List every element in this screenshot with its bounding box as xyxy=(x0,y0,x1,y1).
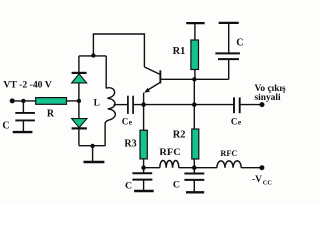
capacitor C (bottom right) xyxy=(184,168,204,192)
wire RFC to R2 node xyxy=(179,167,217,169)
wire C bottom to base node xyxy=(194,78,228,80)
wire R to varactor node xyxy=(67,100,79,102)
node C tap junction xyxy=(21,99,25,103)
wire emitter bus xyxy=(133,104,234,106)
svg-text:R: R xyxy=(47,108,55,119)
svg-text:C: C xyxy=(236,37,243,48)
wire RFC to -Vcc xyxy=(241,167,262,169)
resistor R2 xyxy=(192,129,199,159)
node R3 bottom xyxy=(141,165,146,170)
svg-text:VT -2 -40 V: VT -2 -40 V xyxy=(3,80,51,91)
svg-text:C: C xyxy=(173,179,180,190)
ground (bottom right C) xyxy=(186,191,204,193)
capacitor C (bottom left) xyxy=(132,168,152,191)
node R2 bottom xyxy=(192,165,197,170)
node -Vcc terminal xyxy=(259,165,264,170)
node tank top xyxy=(91,53,95,57)
capacitor C (input) xyxy=(15,101,35,131)
svg-text:CC: CC xyxy=(263,180,273,187)
wire collector loop xyxy=(93,34,144,67)
node between varactors xyxy=(77,99,81,103)
capacitor C (top) xyxy=(215,23,240,79)
wire to ground xyxy=(92,146,94,161)
varactor diode D1 (top) xyxy=(72,56,87,101)
svg-text:RFC: RFC xyxy=(220,148,237,158)
svg-text:R2: R2 xyxy=(173,130,186,141)
svg-text:sinyali: sinyali xyxy=(255,93,281,103)
inductor RFC (left) xyxy=(160,160,179,167)
node Vo output terminal xyxy=(260,102,265,107)
inductor L xyxy=(105,56,115,146)
node base-R2 bus xyxy=(192,102,197,107)
svg-text:C: C xyxy=(231,116,238,126)
svg-text:C: C xyxy=(122,116,129,126)
resistor R xyxy=(36,98,67,105)
svg-text:R3: R3 xyxy=(124,138,136,149)
svg-text:C: C xyxy=(125,180,132,191)
wire input to R xyxy=(12,100,36,102)
node base xyxy=(192,77,196,81)
wire tank bottom xyxy=(79,145,105,147)
capacitor Ce (right) xyxy=(234,97,240,113)
resistor R1 xyxy=(194,23,196,40)
node emitter xyxy=(141,102,146,107)
svg-text:RFC: RFC xyxy=(159,147,180,157)
transistor Q1 xyxy=(144,67,195,105)
rail bar (C top) xyxy=(219,22,239,24)
node tank bottom xyxy=(90,144,94,148)
svg-text:L: L xyxy=(94,99,100,109)
rail bar (R1 top) xyxy=(186,22,204,24)
svg-text:R1: R1 xyxy=(173,46,186,57)
svg-text:-V: -V xyxy=(252,175,262,185)
wire R3 node to RFC xyxy=(144,167,160,169)
inductor RFC (right) xyxy=(217,161,241,168)
wire coil tap to Ce xyxy=(114,104,128,106)
capacitor Ce (left) xyxy=(128,96,133,114)
node VT input terminal xyxy=(10,98,15,103)
resistor R3 xyxy=(143,105,145,131)
ground (tank) xyxy=(84,161,105,164)
svg-text:C: C xyxy=(2,120,9,131)
wire Ce to output xyxy=(240,104,262,106)
ground (input C) xyxy=(13,131,33,133)
varactor diode D2 (bottom) xyxy=(72,101,87,146)
ground (bottom left C) xyxy=(134,190,154,192)
wire base node to bus xyxy=(193,79,195,129)
wire tank top xyxy=(79,55,106,57)
